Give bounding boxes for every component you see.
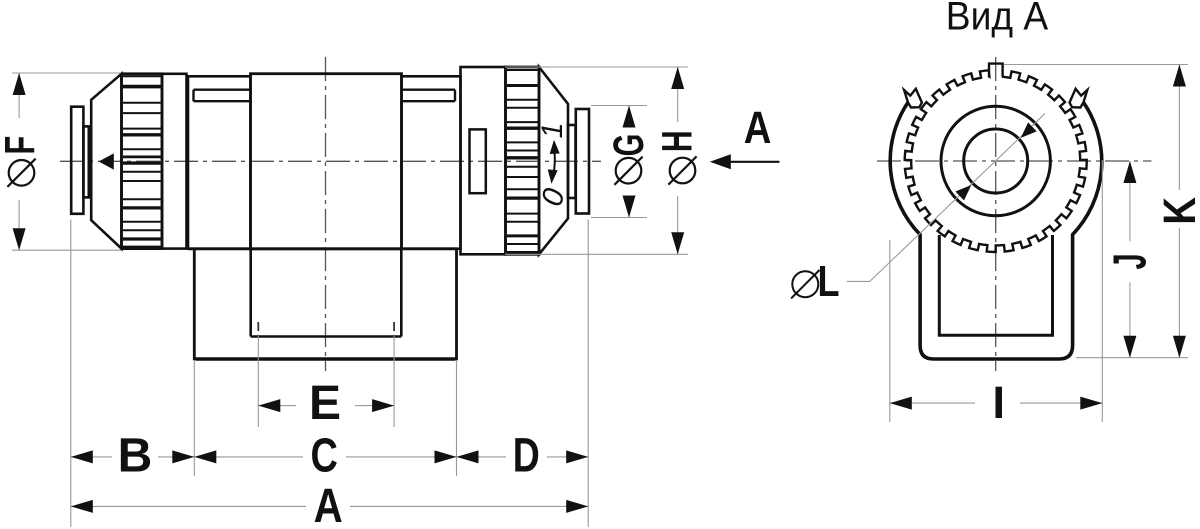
left nut plain ring <box>162 74 187 249</box>
dimension line A <box>71 500 588 513</box>
svg-text:H: H <box>652 130 701 152</box>
svg-text:J: J <box>1105 253 1156 269</box>
pointer triangle on cone <box>99 153 114 169</box>
dimension line B <box>71 450 195 463</box>
rotation double arrow <box>548 140 560 184</box>
left knurled nut <box>122 74 163 249</box>
center hole circle <box>964 129 1028 193</box>
right barrel section <box>402 76 461 248</box>
right flange plate <box>576 109 589 214</box>
dimension line dF <box>12 73 121 250</box>
view arrow A <box>710 154 780 169</box>
left flange plate <box>71 107 83 214</box>
dimension line I <box>890 397 1103 410</box>
extension line left (B/A) <box>70 220 72 528</box>
extension lines I <box>890 160 1103 422</box>
right nut plain ring <box>461 67 506 254</box>
svg-text:A: A <box>744 102 772 153</box>
main horizontal centerline <box>60 160 601 162</box>
right hook <box>1070 89 1088 108</box>
bracket inner right wall <box>400 249 403 337</box>
extension line right (D/A) <box>587 220 589 528</box>
svg-text:E: E <box>309 377 341 430</box>
svg-text:F: F <box>0 136 44 155</box>
left groove lines <box>194 90 251 102</box>
extension line C right <box>456 361 458 476</box>
svg-text:C: C <box>311 429 338 482</box>
label dF <box>0 136 44 187</box>
bracket outer body <box>194 249 456 359</box>
dimension line E <box>258 399 394 412</box>
svg-text:L: L <box>817 257 839 306</box>
bracket top line <box>188 247 457 250</box>
view A horizontal centerline <box>877 160 1152 162</box>
label dG <box>604 134 652 185</box>
svg-text:I: I <box>993 377 1006 428</box>
left cone shell <box>91 74 121 249</box>
leader line dL <box>847 114 1045 282</box>
left hook <box>904 89 922 108</box>
dimension line dG <box>591 106 647 218</box>
right cone shell <box>539 67 568 254</box>
svg-text:K: K <box>1154 197 1200 225</box>
dimension line dH <box>505 67 688 254</box>
dimension line C <box>194 450 456 463</box>
dimension line J <box>1123 161 1136 358</box>
left step collar <box>83 126 88 197</box>
bracket inner bottom <box>251 335 402 338</box>
extension line K top <box>1004 64 1188 66</box>
svg-text:B: B <box>118 430 153 483</box>
main vertical centerline <box>325 57 327 371</box>
svg-text:1: 1 <box>536 122 569 138</box>
label dH <box>652 130 701 184</box>
central body <box>251 74 402 249</box>
nut front circle <box>941 106 1050 215</box>
bracket bottom edge <box>196 357 456 360</box>
serrated nut outline (view A) <box>905 64 1087 252</box>
bracket inner left wall <box>249 249 252 337</box>
extension line C left <box>193 361 195 476</box>
right step collar <box>568 125 576 198</box>
svg-text:D: D <box>513 429 540 483</box>
extension line K bottom <box>1076 357 1188 359</box>
bracket inner window <box>939 235 1052 335</box>
bracket front outline <box>890 102 1102 359</box>
dimension line D <box>457 450 589 463</box>
label dL <box>791 257 839 306</box>
view A vertical centerline <box>995 57 997 371</box>
dimension line K <box>1173 65 1186 358</box>
svg-text:G: G <box>604 134 652 157</box>
right knurled nut <box>506 67 540 254</box>
extension lines E <box>258 322 394 427</box>
svg-text:Вид А: Вид А <box>946 0 1049 39</box>
svg-text:A: A <box>314 480 343 529</box>
right groove lines <box>402 90 455 102</box>
left barrel section <box>188 76 251 248</box>
slot window on right ring <box>470 129 486 193</box>
